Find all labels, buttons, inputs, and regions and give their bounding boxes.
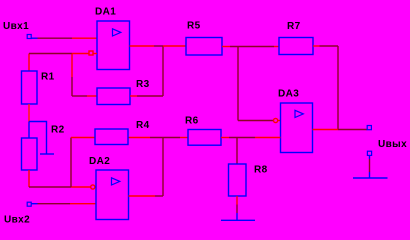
svg-text:R6: R6 [185,116,199,127]
resistor R3 [97,88,130,105]
svg-text:DA1: DA1 [95,7,116,18]
wire pin to DA3 [278,120,281,122]
wire R7 right feedback down [313,45,320,47]
wire DA2 output [129,195,156,197]
terminal Uvx1 [27,35,31,39]
svg-text:Uвх2: Uвх2 [4,215,30,226]
svg-text:R8: R8 [254,165,268,176]
op-amp DA1 triangle [113,29,121,36]
wire branch down to DA3 input [237,47,239,121]
terminal Uvyh [367,126,371,130]
resistor R1 [22,71,38,104]
op-amp DA2 triangle [112,178,120,185]
wire DA1 output [130,45,155,47]
wire R2 bottom to DA2 inverting input [28,170,30,187]
wire terminal to ground [369,156,371,159]
ground right [353,177,388,179]
wire feedback R4 left down to input node [70,138,72,188]
svg-text:R5: R5 [187,21,201,32]
svg-text:R7: R7 [287,21,301,32]
resistor R7 [279,38,313,55]
wire junction down to R3 left [71,54,73,78]
wire R3 right to DA1 output branch [130,95,137,97]
potentiometer R2 wiper tap [29,122,47,155]
wire Uvx2 blue stub [32,203,38,205]
terminal ground reference [367,151,371,155]
pin DA1 inverting input [89,51,93,55]
svg-text:Uвых: Uвых [378,139,407,150]
svg-text:Uвх1: Uвх1 [3,21,29,32]
resistor R4 [95,129,128,145]
op-amp DA2 [96,170,129,220]
resistor R8 [229,164,247,196]
wire DA3 output to terminal [313,129,339,131]
op-amp DA1 [97,21,130,70]
wire branch down to R8 [236,138,238,165]
potentiometer R2 [22,138,38,170]
terminal Uvx2 [27,202,31,206]
wire Uvx2 to DA2 input [38,203,71,205]
wire R5 to R7 [222,46,230,48]
ground left [221,219,255,221]
op-amp DA3 triangle [295,110,303,117]
svg-text:R3: R3 [136,79,150,90]
wire Uvx1 to DA1 noninverting input [38,37,73,39]
wire R4 right to junction to R6 [128,137,150,139]
wire R1 top to DA1 inverting input [28,54,30,72]
svg-text:R2: R2 [51,125,65,136]
potentiometer R2 lead [28,122,30,139]
pin DA3 input [274,118,278,122]
wire R1 bottom to R2 top [28,104,30,122]
svg-text:R4: R4 [136,120,150,131]
resistor R6 [188,130,221,146]
wire R6 right to DA3 input [221,137,229,139]
wire R8 bottom to ground [236,196,238,205]
resistor R5 [186,38,222,56]
svg-text:R1: R1 [41,72,55,83]
pin DA2 inverting input [91,185,95,189]
svg-text:DA2: DA2 [89,156,110,167]
wire Uvx1 blue stub [32,37,38,39]
svg-text:DA3: DA3 [278,89,299,100]
op-amp DA3 [281,103,313,153]
